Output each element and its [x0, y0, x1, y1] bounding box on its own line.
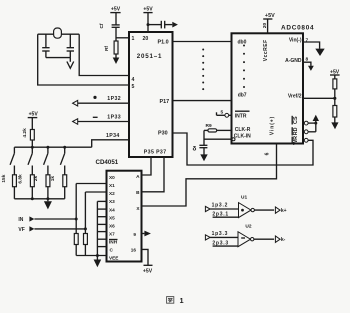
ground (mux/VEE) [94, 256, 102, 268]
node input 1p3.2 [205, 203, 238, 212]
svg-text:1P34: 1P34 [106, 133, 120, 139]
ground (Rf) [113, 58, 120, 65]
capacitor Cf [99, 23, 120, 41]
caption figure 1 [167, 296, 184, 305]
resistor R5 4.2k [22, 128, 34, 147]
node terminal 1P32 [73, 96, 129, 106]
svg-text:CS: CS [293, 116, 299, 124]
ground (ADC clock cap) [200, 154, 207, 161]
svg-text:X7: X7 [109, 232, 115, 237]
svg-text:9: 9 [133, 232, 136, 237]
node terminal VF [18, 226, 87, 233]
IC U4 ADC0804 [232, 23, 315, 156]
svg-text:X4: X4 [109, 207, 115, 212]
capacitor C1 (left crystal cap) [42, 34, 49, 57]
svg-text:1k: 1k [50, 176, 56, 182]
wire P30 to ADC WR [173, 133, 314, 165]
pin INTR 5 stub [217, 110, 232, 118]
pin Vin(-) 7 to ground [303, 37, 325, 56]
power +5V (pull-up 4.2k) [28, 111, 39, 129]
svg-text:5: 5 [132, 84, 135, 90]
ground (divider) [331, 122, 338, 129]
svg-text:CLK-IN: CLK-IN [234, 134, 251, 140]
svg-text:20: 20 [143, 36, 149, 42]
IC U5 CD4051 analog multiplexer [96, 159, 142, 261]
node ADC data ellipsis [243, 45, 245, 89]
ground (decoupling, right arrow) [172, 22, 178, 28]
IC U3 2051-1 microcontroller [129, 32, 173, 157]
power +5V (mux pin 16) [142, 249, 153, 274]
svg-text:1p3.3: 1p3.3 [212, 231, 229, 237]
wire P10 to db0 [173, 41, 232, 43]
svg-text:1: 1 [180, 296, 184, 305]
node terminal IN [18, 216, 77, 222]
resistor R2 6.8k [18, 174, 35, 199]
wire X2 input [85, 192, 106, 234]
svg-text:VF: VF [18, 227, 24, 233]
resistor R10 (divider top) [333, 79, 337, 106]
svg-text:VccREF: VccREF [263, 39, 269, 61]
svg-text:IN: IN [18, 217, 23, 223]
pin RD bubble [304, 130, 315, 134]
svg-text:X1: X1 [109, 183, 115, 188]
node terminal 1P33 [73, 115, 129, 125]
wire P35 to mux A [142, 157, 152, 175]
svg-text:Vin(-): Vin(-) [289, 38, 302, 44]
svg-text:A-GND: A-GND [285, 58, 302, 64]
svg-text:k+: k+ [281, 208, 287, 214]
node divider junction [333, 97, 336, 100]
pin A-GND 8 to ground [303, 56, 314, 71]
node mux ground junction [96, 254, 99, 257]
svg-text:X5: X5 [109, 215, 115, 220]
svg-text:+5V: +5V [143, 269, 153, 275]
node Vcc decoupling junction [147, 23, 150, 26]
wire Vref/2 to divider node [303, 97, 335, 99]
node input 1p3.3 [205, 231, 238, 240]
resistor R1 15k [1, 174, 17, 199]
wire P37 to mux B [142, 157, 165, 192]
wire RST node to pin 1 [116, 37, 129, 39]
svg-text:U1: U1 [241, 195, 247, 201]
svg-text:+5V: +5V [111, 7, 121, 13]
svg-text:X6: X6 [109, 224, 115, 229]
svg-text:6.8k: 6.8k [18, 174, 24, 184]
svg-text:15k: 15k [1, 174, 7, 182]
node output k+ [254, 207, 286, 214]
svg-text:Cf: Cf [99, 23, 105, 28]
crystal Y1 [38, 28, 79, 38]
node data bus ellipsis [202, 49, 204, 91]
svg-text:RD: RD [293, 127, 299, 135]
switch S4 [60, 147, 64, 175]
capacitor C3 (decoupling) [148, 21, 172, 29]
svg-text:Rf: Rf [104, 46, 110, 51]
wire ground bus (mux) [76, 255, 106, 257]
svg-text:P35 P37: P35 P37 [144, 150, 167, 156]
power +5V (Vref divider) [330, 69, 340, 79]
wire XTAL to pin 5 [38, 34, 129, 85]
node output k- [254, 236, 286, 243]
svg-text:1P33: 1P33 [107, 115, 121, 121]
svg-text:INH: INH [109, 240, 118, 245]
svg-text:1p3.2: 1p3.2 [212, 203, 229, 209]
svg-text:CLK-R: CLK-R [235, 127, 251, 133]
wire mux X to ADC Vin+ pin 6 [142, 144, 277, 207]
wire switch bus top [14, 146, 91, 148]
resistor Rf [104, 41, 118, 58]
ground (mux pin 9, right arrow) [142, 231, 151, 237]
wire crystal caps common [46, 57, 70, 59]
node input 2p3.3 [212, 240, 238, 246]
svg-text:CD4051: CD4051 [96, 159, 119, 166]
svg-text:+5V: +5V [29, 111, 39, 117]
wire XTAL to pin 4 [79, 34, 129, 75]
svg-text:db7: db7 [238, 93, 247, 99]
svg-text:X3: X3 [109, 199, 115, 204]
svg-text:2p3.3: 2p3.3 [212, 240, 229, 246]
svg-text:2k: 2k [33, 176, 39, 182]
svg-text:ADC0804: ADC0804 [281, 25, 314, 32]
svg-text:INTR: INTR [235, 113, 247, 119]
resistor R9 (ADC clock) [204, 123, 232, 132]
op-amp U1 [239, 195, 255, 218]
svg-text:8: 8 [306, 56, 309, 62]
capacitor C2 (right crystal cap) [67, 34, 74, 57]
svg-text:20: 20 [262, 23, 268, 29]
svg-text:P30: P30 [158, 131, 168, 137]
svg-text:P17: P17 [160, 99, 170, 105]
resistor R3 2k [33, 175, 50, 199]
svg-text:16: 16 [131, 248, 137, 253]
ground (switch network) [44, 199, 52, 210]
svg-text:k-: k- [281, 237, 286, 243]
svg-text:R9: R9 [206, 123, 212, 129]
resistor R7 (VF load) [84, 234, 88, 256]
power +5V (ADC pin 20) [263, 13, 275, 33]
wire X1 input [76, 184, 106, 234]
wire unused mux inputs X3-X7 INH C [97, 201, 106, 255]
svg-text:db0: db0 [238, 39, 247, 45]
pin WR bubble [304, 138, 308, 142]
ground (CS/RD, up arrow) [313, 115, 319, 132]
svg-text:X0: X0 [109, 175, 115, 180]
switch S1 [10, 147, 14, 175]
wire P17 to db7 [173, 100, 232, 102]
svg-text:δ: δ [193, 146, 197, 153]
resistor R4 1k [50, 175, 66, 199]
node input 2p3.1 [212, 212, 238, 218]
node bottom bus junctions [31, 197, 50, 200]
power +5V (MCU pin 20) [143, 7, 153, 32]
svg-text:U2: U2 [245, 223, 251, 229]
op-amp U2 [238, 223, 254, 246]
wire CLK-IN [204, 130, 235, 145]
svg-text:WR: WR [293, 136, 299, 145]
svg-text:6: 6 [265, 152, 271, 155]
svg-text:X2: X2 [109, 191, 115, 196]
svg-text:1P32: 1P32 [107, 96, 121, 102]
svg-text:2051–1: 2051–1 [137, 53, 162, 60]
resistor R11 (divider bottom) [333, 106, 337, 123]
capacitor C4 (ADC clock) [193, 145, 208, 154]
svg-text:VEE: VEE [109, 256, 118, 261]
ground (crystal caps) [67, 58, 74, 69]
switch S2 [28, 147, 32, 175]
svg-text:4.2k: 4.2k [22, 128, 28, 138]
resistor R6 (IN load) [74, 234, 78, 256]
svg-text:Vref/2: Vref/2 [288, 93, 302, 99]
svg-text:4: 4 [132, 77, 135, 83]
switch S3 [44, 147, 48, 175]
svg-text:+5V: +5V [265, 13, 275, 19]
wire switch bus bottom [14, 198, 64, 200]
power +5V (reset RC) [110, 7, 120, 25]
wire 1P34 [92, 133, 129, 147]
svg-text:1: 1 [132, 36, 135, 42]
pin CS bubble [304, 121, 317, 125]
node bus junctions [31, 146, 66, 149]
svg-text:P1.0: P1.0 [158, 40, 169, 46]
svg-text:Vin(+): Vin(+) [270, 116, 276, 135]
svg-text:2p3.1: 2p3.1 [212, 212, 229, 218]
svg-text:+5V: +5V [143, 7, 153, 13]
